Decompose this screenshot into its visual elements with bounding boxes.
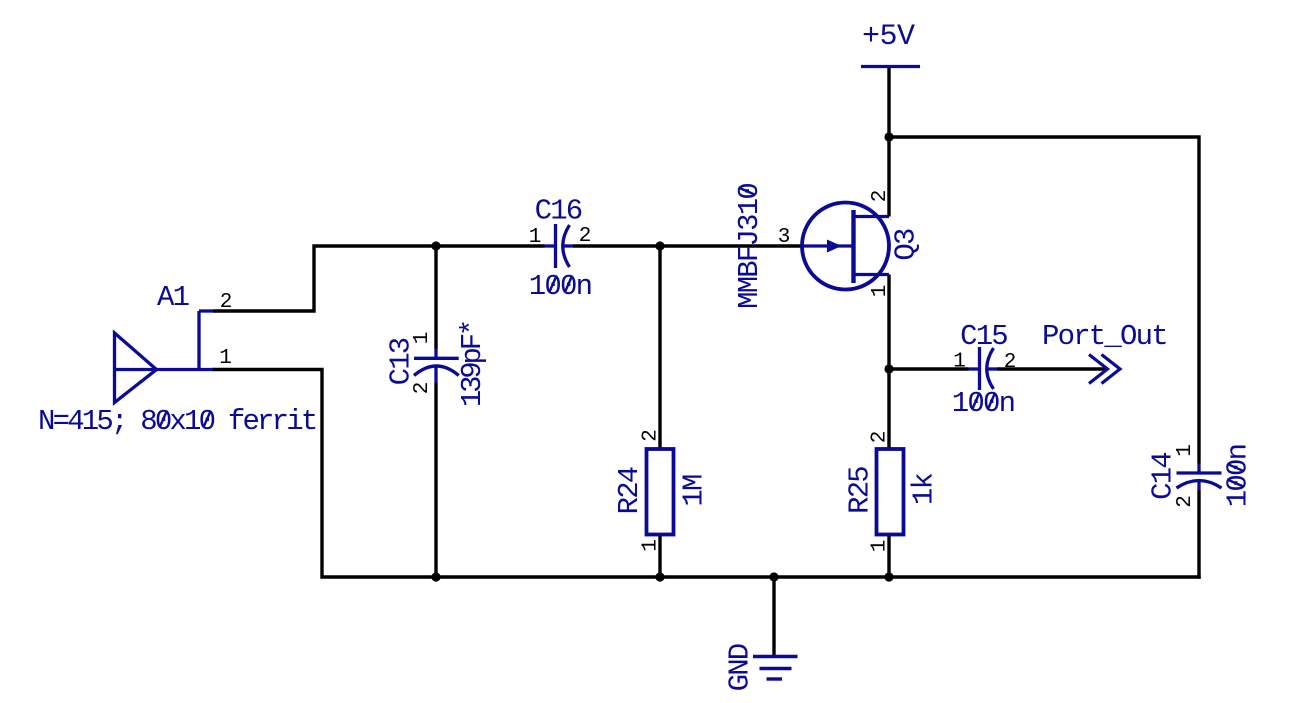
wire net antenna pin2 to C16 (213, 246, 545, 311)
node junction GND tap (769, 572, 778, 581)
wire R25 column lower (887, 533, 890, 577)
node junction +5V rail (884, 132, 893, 141)
svg-text:2: 2 (869, 190, 892, 203)
svg-text:C16: C16 (535, 195, 582, 228)
wire +5V stem (887, 67, 890, 137)
svg-text:2: 2 (1174, 495, 1197, 508)
node junction R24 top (655, 241, 664, 250)
node junction R25 bottom (884, 572, 893, 581)
transistor Q3 (JFET) (802, 203, 889, 290)
svg-text:1: 1 (869, 285, 892, 298)
svg-text:100n: 100n (952, 387, 1014, 420)
wire R25 column upper (887, 369, 890, 450)
wire Q3 drain (887, 137, 890, 217)
svg-text:100n: 100n (1222, 445, 1255, 507)
port Port_Out arrow (1089, 355, 1120, 384)
svg-text:139pF*: 139pF* (456, 322, 489, 407)
node junction source/C15/R25 (884, 364, 893, 373)
svg-text:C14: C14 (1147, 453, 1180, 500)
capacitor C14 (1177, 464, 1222, 491)
svg-text:1: 1 (219, 347, 232, 370)
wire C15 to port arrow (997, 367, 1105, 370)
svg-text:2: 2 (220, 291, 233, 314)
svg-text:100n: 100n (529, 270, 591, 303)
svg-text:GND: GND (724, 644, 757, 691)
svg-text:A1: A1 (157, 281, 189, 314)
power +5V symbol (861, 65, 920, 68)
svg-text:1: 1 (411, 332, 434, 345)
svg-text:R24: R24 (613, 467, 646, 514)
svg-text:1k: 1k (908, 474, 941, 506)
svg-text:1: 1 (640, 539, 663, 552)
svg-text:3: 3 (778, 226, 791, 249)
svg-text:1M: 1M (678, 475, 711, 507)
capacitor C16 (545, 224, 574, 268)
svg-text:R25: R25 (844, 467, 877, 514)
svg-text:2: 2 (579, 225, 592, 248)
wire right rail lower (1197, 491, 1200, 579)
capacitor C13 (414, 349, 459, 383)
wire R24 column upper (658, 246, 661, 450)
wire GND stem (772, 577, 775, 658)
node junction R24 bottom (655, 572, 664, 581)
svg-text:Q3: Q3 (890, 229, 923, 261)
svg-text:1: 1 (529, 226, 542, 249)
wire C13 column upper (434, 246, 437, 349)
svg-text:1: 1 (869, 540, 892, 553)
capacitor C15 (969, 347, 998, 390)
svg-text:1: 1 (1174, 444, 1197, 457)
svg-text:MMBFJ310: MMBFJ310 (733, 184, 766, 309)
svg-text:2: 2 (1004, 351, 1017, 374)
wire top rail and right rail upper (889, 137, 1199, 464)
svg-text:2: 2 (869, 431, 892, 444)
svg-text:N=415; 80x10 ferrit: N=415; 80x10 ferrit (38, 405, 316, 438)
wire antenna pin1 down and bottom rail (212, 370, 1201, 578)
wire node to C15 (889, 367, 969, 370)
antenna A1 (115, 311, 214, 403)
svg-text:+5V: +5V (862, 20, 915, 54)
svg-text:Port_Out: Port_Out (1042, 320, 1167, 353)
svg-text:1: 1 (953, 351, 966, 374)
wire C16 to Q3 gate (573, 244, 804, 247)
wire Q3 source to node (887, 275, 890, 370)
resistor R25 (877, 449, 904, 535)
node junction C13 bottom (431, 572, 440, 581)
resistor R24 (647, 449, 674, 535)
ground symbol (753, 657, 798, 680)
svg-text:2: 2 (640, 429, 663, 442)
svg-text:2: 2 (411, 382, 434, 395)
wire C13 column lower (434, 383, 437, 578)
wire R24 column lower (658, 533, 661, 577)
svg-text:C15: C15 (960, 320, 1007, 353)
node junction C13 top (431, 241, 440, 250)
